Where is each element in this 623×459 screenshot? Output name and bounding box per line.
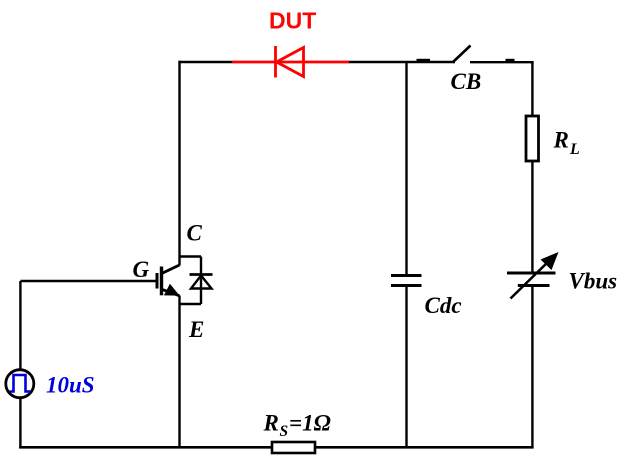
- wire collector to diode top: [179, 255, 202, 257]
- collector diagonal: [162, 265, 180, 273]
- long plate: [507, 272, 556, 275]
- wire nub right of switch: [506, 59, 515, 62]
- svg-text:10uS: 10uS: [46, 373, 95, 398]
- emitter arrow: [164, 284, 180, 296]
- resistor RL: [526, 116, 539, 161]
- diode DUT (red, pointing left): [232, 46, 349, 78]
- wire left vertical (top rail to IGBT collector): [178, 61, 180, 266]
- svg-text:Cdc: Cdc: [425, 293, 462, 318]
- wire middle vertical bottom (Cdc to bottom rail): [405, 287, 407, 448]
- svg-text:S: S: [280, 423, 289, 440]
- wire gate lead: [20, 280, 156, 282]
- triangle: [191, 276, 212, 289]
- wire top rail right black segment (switch to corner): [470, 61, 534, 63]
- wire top rail left black segment: [179, 61, 234, 63]
- wire pulse source to bottom rail: [19, 398, 21, 448]
- wire right vertical (corner to RL): [531, 61, 533, 117]
- source pulse generator circle: [6, 370, 34, 398]
- svg-text:L: L: [569, 141, 580, 158]
- diode anti-parallel (across IGBT): [179, 257, 213, 305]
- cathode bar: [190, 273, 213, 276]
- wire diode bottom to emitter: [179, 303, 202, 305]
- variability arrow head: [541, 252, 559, 270]
- svg-text:R: R: [553, 128, 569, 153]
- wire right vertical (RL to Vbus): [531, 161, 533, 273]
- wire nub near Cdc junction: [417, 59, 431, 62]
- svg-text:R: R: [263, 411, 279, 436]
- resistor RS: [272, 442, 315, 453]
- svg-text:G: G: [133, 257, 150, 282]
- body bar: [160, 267, 163, 296]
- wire diode vertical: [200, 257, 202, 305]
- wire middle vertical top (rail to Cdc): [405, 62, 407, 274]
- gate bar: [156, 273, 159, 289]
- switch CB blade: [453, 46, 471, 63]
- wire right vertical (Vbus to bottom rail): [531, 287, 533, 448]
- emitter diagonal: [163, 290, 180, 296]
- short plate: [518, 284, 550, 287]
- transistor IGBT (with labels C G E): [157, 265, 180, 296]
- svg-text:=1Ω: =1Ω: [289, 411, 331, 436]
- svg-text:CB: CB: [451, 69, 482, 94]
- pulse waveform (blue): [10, 375, 31, 392]
- variability arrow shaft: [511, 259, 552, 299]
- svg-text:E: E: [188, 317, 204, 342]
- svg-text:Vbus: Vbus: [569, 269, 618, 294]
- svg-text:DUT: DUT: [269, 8, 316, 34]
- wire bottom rail: [19, 446, 533, 449]
- wire far-left vertical (gate wire down to pulse source): [19, 281, 21, 370]
- wire emitter vertical to bottom rail: [178, 296, 180, 449]
- wire top rail middle black segment (diode to switch): [348, 61, 455, 63]
- capacitor Cdc: [391, 276, 422, 286]
- source Vbus (variable DC): [507, 252, 559, 299]
- svg-text:C: C: [187, 221, 203, 246]
